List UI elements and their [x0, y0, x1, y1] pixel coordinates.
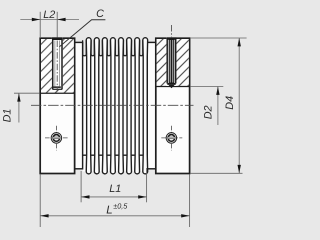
left hub bore line [40, 92, 74, 94]
bellows right end plate [147, 42, 156, 168]
right screw drill point [168, 85, 175, 88]
bellows band [83, 56, 148, 172]
bellows bottom valley cap 5 [115, 154, 118, 156]
svg-text:±0,5: ±0,5 [113, 202, 128, 211]
bellows bottom valley cap 3 [99, 154, 102, 156]
dimension L extension line right [189, 175, 191, 228]
right screw front view crosshair [161, 137, 182, 139]
main axis centerline [31, 104, 194, 106]
dimension D1 arrow [17, 93, 20, 101]
bellows top valley 2 [91, 40, 94, 56]
bellows convolution 1 [86, 38, 91, 174]
bellows top valley 4 [107, 40, 110, 56]
dimension L2 arrow left [32, 18, 40, 21]
svg-text:D1: D1 [1, 109, 13, 123]
dimension L extension line left [39, 175, 41, 228]
left screw head top [52, 37, 63, 40]
svg-text:L1: L1 [109, 183, 121, 195]
dimension L arrow right [181, 214, 189, 217]
svg-text:D2: D2 [202, 105, 214, 119]
left screw slot [53, 137, 60, 139]
bellows top valley 8 [140, 40, 143, 56]
dimension L line [40, 215, 189, 217]
dimension L2 extension line right (screw axis) [56, 12, 58, 38]
svg-text:L: L [106, 204, 112, 216]
bellows convolution 6 [127, 38, 132, 174]
bellows top valley 5 [115, 40, 118, 56]
bellows convolution 4 [110, 38, 115, 174]
right screw front view outer circle [166, 133, 177, 144]
bellows left end plate [75, 42, 83, 168]
dimension D1 line [18, 93, 20, 122]
left screw centerline [56, 41, 58, 92]
left screw front view crosshair [45, 137, 68, 139]
bellows top valley 7 [131, 40, 134, 56]
bellows convolution 8 [143, 38, 148, 174]
right screw body highlights [169, 40, 171, 83]
dimension D4 arrow top [238, 38, 241, 46]
dimension D4 line [238, 38, 240, 173]
left screw hole left wall [52, 38, 54, 89]
left hub hatched section [41, 39, 74, 93]
dimension D1 extension line [14, 92, 40, 94]
left screw hole bottom [52, 88, 62, 90]
bellows bottom valley cap 2 [91, 154, 94, 156]
right hub hatched section [157, 39, 189, 87]
dimension L2 line [20, 19, 79, 21]
dimension L2 arrow right [57, 18, 65, 21]
right screw front view head [168, 135, 175, 142]
right screw tip bar [167, 83, 175, 85]
right screw hole left wall [166, 38, 168, 83]
left screw tip [53, 86, 60, 88]
left hub body [40, 38, 74, 173]
bellows convolution 2 [94, 38, 99, 174]
dimension D2 extension line [190, 86, 223, 88]
dimension D4 extension line top [190, 37, 247, 39]
bellows convolution 7 [135, 38, 140, 174]
dimension D2 line [217, 87, 219, 126]
leader line C [59, 20, 105, 47]
left screw hole right wall [61, 38, 63, 89]
dimension D4 extension line bottom [190, 172, 242, 174]
bellows top valley 1 [83, 40, 87, 56]
right screw centerline [171, 25, 173, 38]
svg-text:L2: L2 [43, 9, 55, 21]
right clamping screw hole [166, 37, 176, 86]
dimension D2 arrow [216, 87, 219, 95]
right hub body [156, 38, 190, 173]
bellows bottom valley cap 1 [83, 154, 86, 156]
right hub bore line [156, 86, 190, 88]
left screw front view outer circle [51, 133, 62, 144]
dimension L1 arrow left [81, 195, 89, 198]
svg-text:C: C [96, 8, 104, 20]
left screw front view head [53, 135, 60, 142]
right screw body (sectioned dark) [169, 40, 175, 84]
bellows bottom valley cap 4 [107, 154, 110, 156]
bellows convolution 3 [102, 38, 107, 174]
bellows bottom valley cap 8 [140, 154, 143, 156]
dimension L1 line [81, 196, 147, 198]
bellows convolution 5 [119, 38, 124, 174]
left clamping screw hole [52, 37, 63, 89]
bellows top valley 6 [123, 40, 126, 56]
dimension D4 arrow bottom [238, 165, 241, 173]
bellows top valley 3 [99, 40, 102, 56]
dimension L2 extension line left [39, 12, 41, 37]
svg-text:D4: D4 [224, 96, 236, 110]
dimension L1 extension line right [146, 168, 148, 202]
right screw slot [168, 137, 175, 139]
bellows bottom valley cap 7 [132, 154, 135, 156]
left screw body edge lines [54, 41, 56, 87]
dimension L arrow left [40, 214, 48, 217]
bellows bottom valley cap 6 [123, 154, 126, 156]
dimension L1 arrow right [138, 195, 146, 198]
right screw hole right wall [175, 38, 177, 83]
dimension L1 extension line left [80, 171, 82, 202]
right screw head top [167, 37, 177, 39]
